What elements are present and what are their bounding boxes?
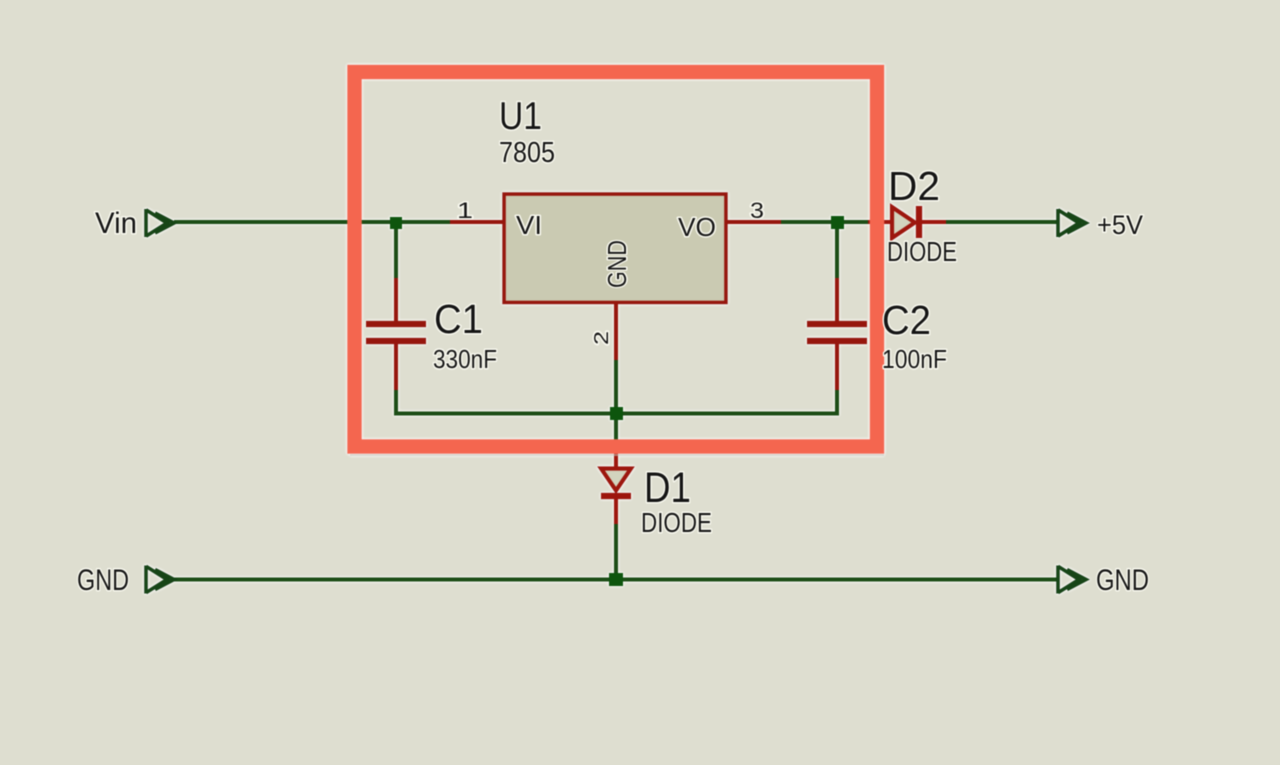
- regulator U1 body: [504, 194, 726, 303]
- svg-text:GND: GND: [602, 240, 632, 288]
- terminal GND left: [146, 566, 174, 594]
- highlight box (red annotation rectangle): [355, 72, 878, 447]
- diode D1 anode lead: [614, 452, 618, 472]
- junction node at GND rail / D1: [609, 573, 623, 586]
- diode D1 triangle: [601, 469, 631, 491]
- svg-text:2: 2: [591, 331, 613, 345]
- svg-text:DIODE: DIODE: [641, 507, 712, 538]
- svg-text:+5V: +5V: [1097, 210, 1143, 240]
- diode D2 triangle: [892, 207, 915, 238]
- svg-text:3: 3: [750, 198, 764, 223]
- svg-text:Vin: Vin: [95, 207, 137, 240]
- svg-text:GND: GND: [1096, 564, 1149, 597]
- wire GND pin down to rail junction: [614, 358, 618, 415]
- svg-text:D2: D2: [888, 163, 940, 209]
- svg-text:GND: GND: [77, 564, 129, 597]
- highlight box shadow: [350, 454, 884, 456]
- svg-text:100nF: 100nF: [882, 344, 947, 374]
- terminal Vin (input port symbol): [146, 209, 174, 237]
- diode D1 cathode bar: [601, 493, 631, 500]
- junction node at Vin/C1: [390, 217, 402, 229]
- wire D1 cathode down to GND rail: [614, 522, 618, 581]
- pin 1 of U1: [450, 220, 504, 224]
- wire Vin to pin1 (net VIN): [174, 220, 452, 224]
- svg-text:VO: VO: [678, 212, 716, 242]
- wire C2 top branch: [835, 222, 839, 280]
- svg-text:C2: C2: [882, 297, 931, 343]
- svg-text:D1: D1: [644, 464, 691, 512]
- terminal GND right: [1058, 566, 1086, 594]
- capacitor C2 plates: [807, 321, 867, 328]
- svg-text:VI: VI: [516, 210, 542, 240]
- terminal +5V (output port symbol): [1058, 209, 1086, 237]
- diode D2 anode lead: [868, 220, 894, 224]
- capacitor C1 plates: [366, 321, 426, 328]
- svg-text:7805: 7805: [499, 137, 555, 169]
- wire rail junction down to D1 anode: [614, 414, 618, 449]
- wire D2 cathode to +5V terminal: [944, 220, 1057, 224]
- pin 3 of U1: [726, 220, 781, 224]
- wire C1 bottom branch: [394, 388, 398, 416]
- junction node at bottom rail / D1: [610, 407, 623, 420]
- capacitor C2 leads: [835, 278, 839, 321]
- capacitor C1 leads: [394, 278, 398, 321]
- wire bottom rail inside box: [394, 412, 839, 416]
- svg-text:DIODE: DIODE: [887, 236, 957, 267]
- diode D2 cathode lead: [919, 220, 946, 224]
- junction node at VO/C2: [831, 216, 844, 229]
- pin 2 of U1: [614, 303, 618, 360]
- wire pin3 to D2 anode (net VO): [779, 220, 884, 224]
- svg-text:U1: U1: [499, 95, 542, 138]
- wire GND rail (net GND): [170, 578, 1057, 582]
- svg-text:1: 1: [457, 198, 473, 223]
- diode D2 cathode bar: [916, 206, 923, 238]
- svg-text:C1: C1: [434, 296, 483, 342]
- diode D1 cathode lead: [614, 496, 618, 524]
- wire C2 bottom branch: [835, 388, 839, 416]
- wire C1 top branch: [394, 222, 398, 280]
- svg-text:330nF: 330nF: [433, 344, 497, 374]
